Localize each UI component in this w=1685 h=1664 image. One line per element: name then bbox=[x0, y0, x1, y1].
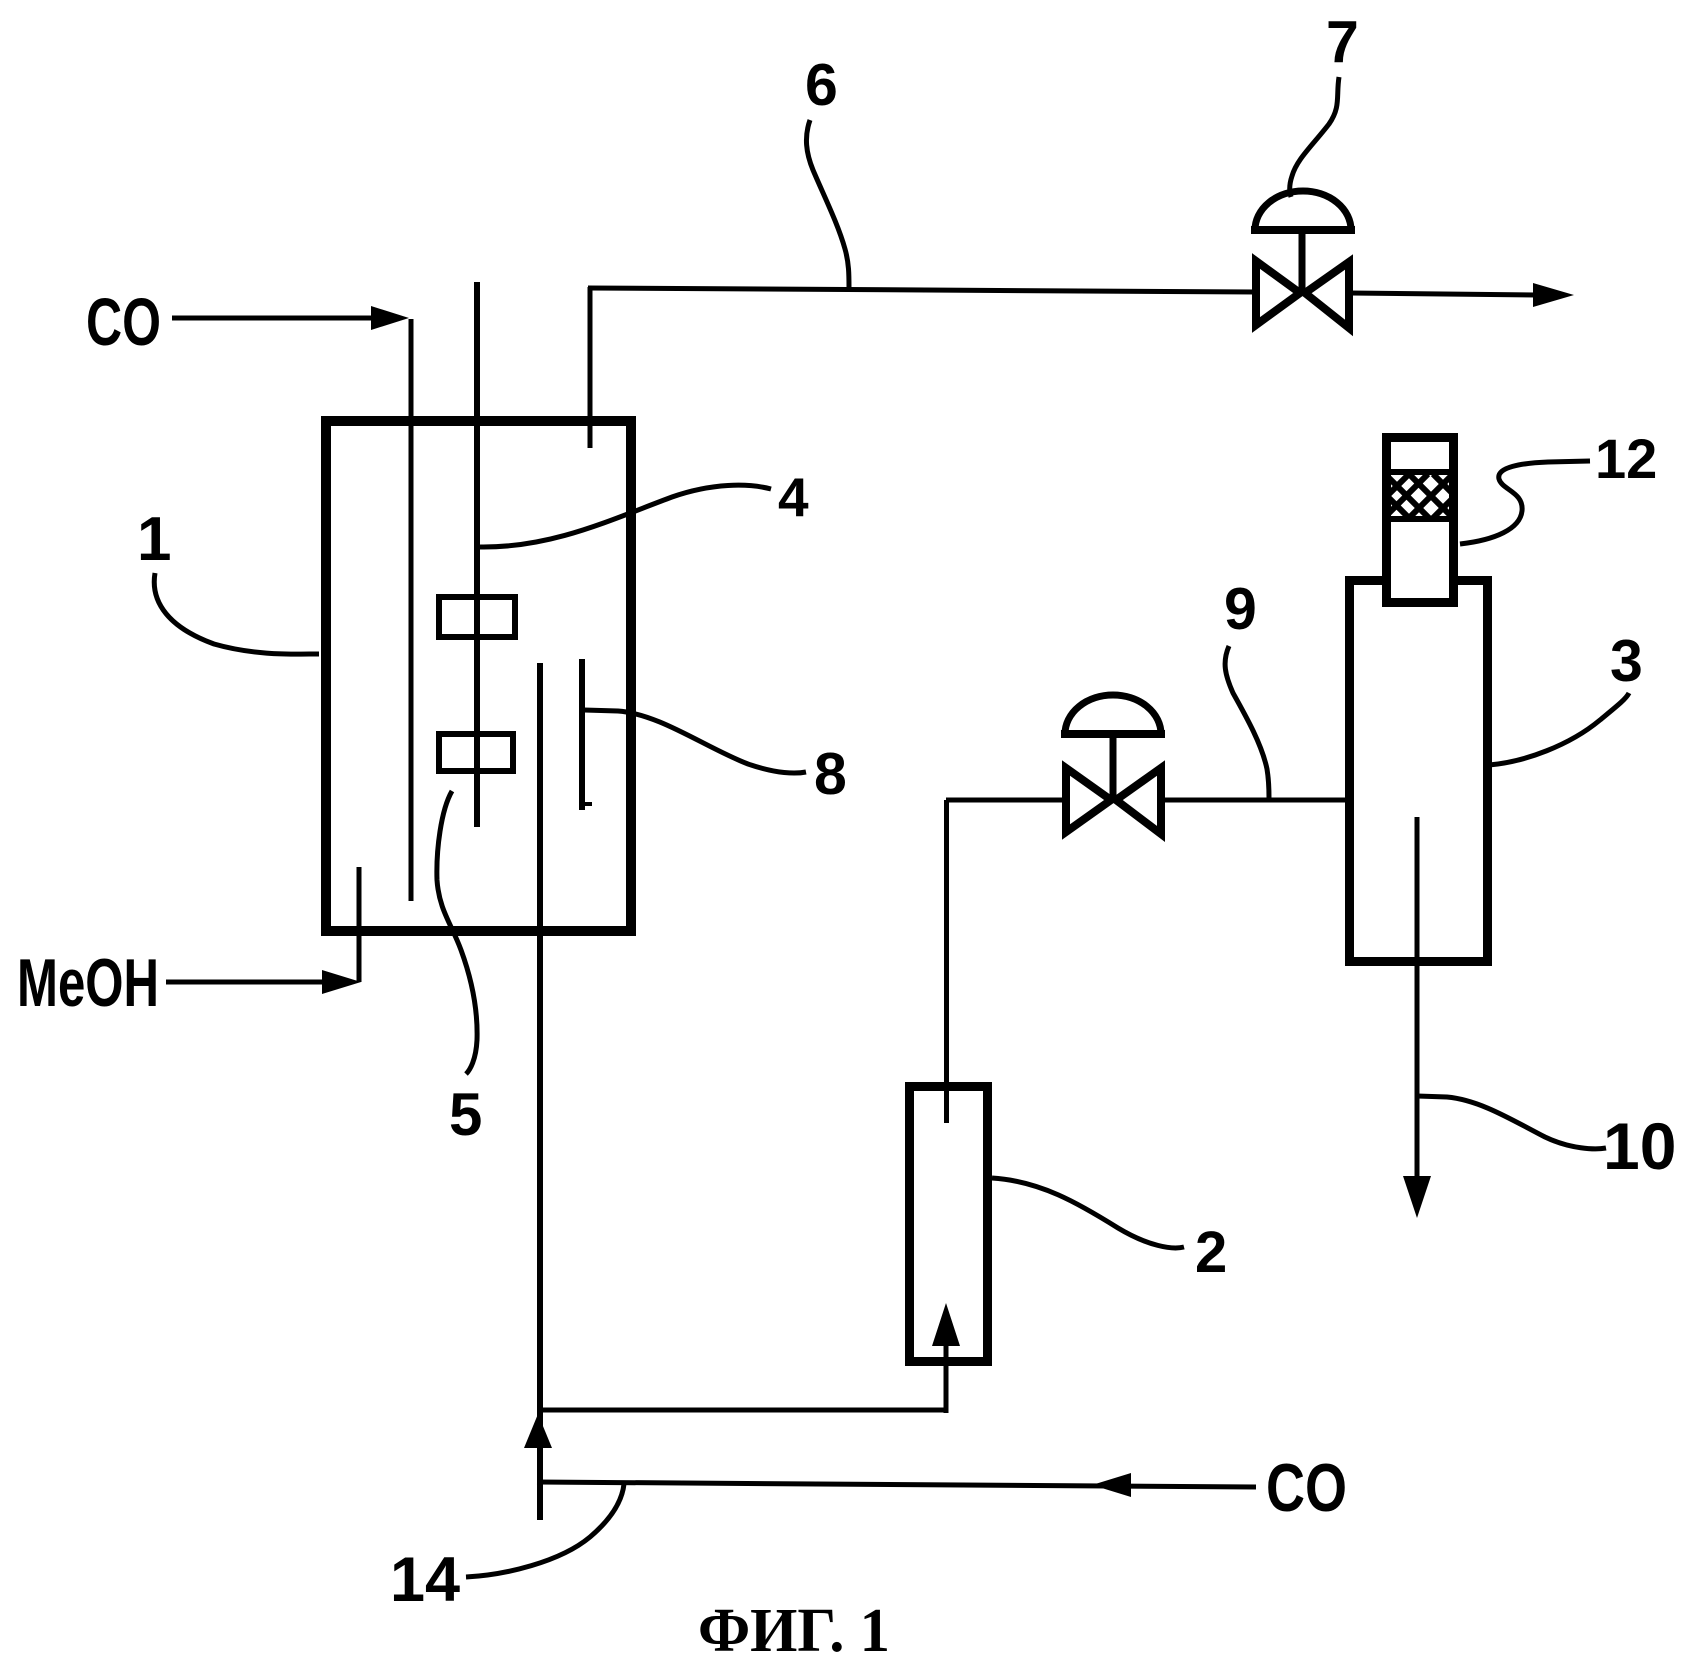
baffle tube 8 bbox=[579, 659, 585, 810]
svg-text:MeOH: MeOH bbox=[17, 945, 159, 1021]
wire vessel 3 outlet arrow 10 bbox=[1415, 817, 1420, 1178]
svg-text:3: 3 bbox=[1610, 628, 1643, 694]
svg-text:10: 10 bbox=[1603, 1109, 1676, 1183]
svg-text:5: 5 bbox=[449, 1081, 482, 1148]
svg-text:ФИГ. 1: ФИГ. 1 bbox=[698, 1597, 890, 1664]
svg-text:2: 2 bbox=[1195, 1220, 1227, 1285]
wire CO dip pipe bbox=[409, 319, 414, 901]
svg-text:CO: CO bbox=[1266, 1450, 1347, 1526]
svg-text:8: 8 bbox=[814, 741, 847, 807]
tube 12 crosshatch bbox=[1386, 474, 1454, 518]
tube 12 hatch bottom line bbox=[1382, 516, 1458, 522]
wire bottom branch line to vessel 2 bbox=[537, 1408, 946, 1413]
svg-text:7: 7 bbox=[1326, 9, 1359, 75]
svg-text:1: 1 bbox=[137, 505, 171, 574]
impeller lower 5 bbox=[439, 734, 513, 771]
wire MeOH arrow bbox=[166, 980, 326, 985]
wire line 9 bbox=[946, 798, 1064, 803]
valve 7 bbox=[1256, 261, 1349, 328]
vessel 2 bbox=[910, 1087, 988, 1362]
wire MeOH pipe bbox=[357, 867, 362, 982]
tube 8 foot tick bbox=[582, 802, 592, 806]
tube 12 bbox=[1387, 438, 1454, 603]
wire vent stub from reactor top bbox=[588, 287, 593, 448]
wire line 6 bbox=[588, 288, 1256, 292]
svg-text:4: 4 bbox=[778, 466, 809, 528]
stirrer shaft 4 bbox=[474, 282, 480, 827]
wire up-arrow into vessel 2 bbox=[944, 1344, 949, 1413]
svg-text:CO: CO bbox=[86, 285, 161, 360]
svg-text:12: 12 bbox=[1595, 427, 1657, 490]
wire CO inlet arrow bbox=[172, 316, 374, 321]
svg-text:6: 6 bbox=[805, 52, 838, 118]
reactor vessel 1 bbox=[326, 421, 631, 931]
impeller upper bbox=[439, 597, 515, 637]
wire recycle riser 14 bbox=[537, 663, 543, 1520]
svg-text:9: 9 bbox=[1224, 576, 1257, 642]
svg-text:14: 14 bbox=[390, 1545, 460, 1615]
wire down to vessel 2 bbox=[944, 800, 949, 1123]
vessel 3 bbox=[1345, 576, 1354, 966]
valve 9 bbox=[1066, 768, 1161, 834]
tube 12 hatch top line bbox=[1382, 469, 1458, 475]
wire bottom CO line bbox=[537, 1482, 1256, 1487]
